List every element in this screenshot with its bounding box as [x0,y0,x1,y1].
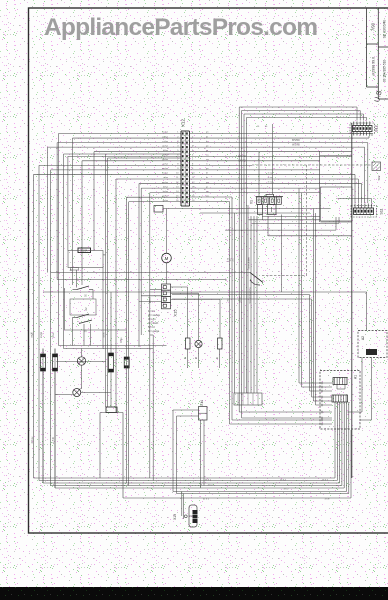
svg-text:26 6 2: 26 6 2 [205,479,212,481]
svg-text:sw: sw [228,298,230,301]
svg-text:sw: sw [206,159,209,161]
svg-text:gn/sw: gn/sw [150,297,152,303]
svg-text:bl/ge: bl/ge [121,337,123,343]
svg-text:4 6 2: 4 6 2 [284,488,290,490]
svg-text:br/sw: br/sw [163,190,169,193]
svg-text:S11: S11 [380,208,384,214]
svg-text:gr: gr [206,185,208,188]
svg-text:bl/sw: bl/sw [163,150,168,152]
svg-text:1,5 bl: 1,5 bl [53,437,55,443]
svg-text:br: br [70,269,73,271]
svg-text:3 = gn: 3 = gn [148,317,156,321]
svg-text:X19: X19 [173,514,177,520]
svg-text:26 6 2: 26 6 2 [280,479,287,481]
svg-text:gr/sw: gr/sw [163,199,169,202]
svg-text:rt sw: rt sw [268,181,273,184]
svg-text:gr/sw: gr/sw [163,163,169,166]
svg-text:sw/sw: sw/sw [162,173,168,175]
svg-text:2,5 sw: 2,5 sw [32,436,34,443]
svg-text:· — · ˙: · — · ˙ [300,556,310,560]
svg-text:br: br [206,176,208,179]
svg-text:41 6 2: 41 6 2 [203,498,210,500]
svg-text:AppliancePartsPros.com: AppliancePartsPros.com [44,14,318,41]
svg-text:4 6 2: 4 6 2 [325,498,331,500]
svg-text:ge/sw: ge/sw [162,159,168,161]
svg-text:WS RD: WS RD [238,156,246,158]
svg-text:ws/sw: ws/sw [162,132,168,134]
svg-text:X14: X14 [200,400,204,406]
svg-text:X2: X2 [84,307,88,311]
svg-text:rt/sw: rt/sw [163,140,168,143]
svg-text:br: br [195,357,198,359]
svg-text:03 184/185-510: 03 184/185-510 [383,60,387,83]
svg-text:br: br [216,357,219,359]
svg-text:rt/ws: rt/ws [52,332,55,338]
svg-text:7/90: 7/90 [371,22,376,31]
svg-text:S12: S12 [375,125,379,131]
svg-text:sw/gn: sw/gn [41,331,43,338]
svg-text:br: br [184,357,187,359]
svg-text:A2: A2 [361,336,365,340]
svg-text:sw: sw [206,195,209,197]
svg-text:ge/sw: ge/sw [162,195,168,197]
svg-text:bl/sw: bl/sw [163,186,168,188]
svg-text:M: M [165,256,169,261]
svg-text:ws/gn: ws/gn [240,296,242,303]
svg-text:26 6 2: 26 6 2 [322,479,329,481]
svg-text:ws/sw: ws/sw [162,168,168,170]
svg-text:rt sw: rt sw [268,176,273,179]
svg-text:4 6 2: 4 6 2 [208,484,214,486]
svg-text:X1: X1 [250,200,254,204]
svg-text:br: br [206,140,208,143]
svg-text:gn/sw: gn/sw [162,145,168,147]
svg-text:X15: X15 [173,309,178,317]
svg-text:ws/bl: ws/bl [32,332,34,338]
svg-text:WS RD: WS RD [292,140,300,142]
svg-text:rt sw: rt sw [268,172,273,175]
svg-text:X12: X12 [181,119,186,128]
svg-text:rt/sw: rt/sw [163,176,168,179]
svg-text:br/sw: br/sw [163,153,169,156]
svg-text:A1: A1 [354,375,358,379]
svg-text:S02: S02 [377,175,381,180]
svg-text:WS RD: WS RD [238,161,246,163]
svg-text:1 = br: 1 = br [148,309,155,313]
svg-text:SE 33/00/4b: SE 33/00/4b [383,20,387,39]
svg-text:gn/sw: gn/sw [162,182,168,184]
svg-text:sw/sw: sw/sw [162,136,168,138]
svg-text:V2998 99.0: V2998 99.0 [372,57,376,75]
svg-text:WS RD: WS RD [292,145,300,147]
svg-text:ws/rt: ws/rt [103,332,106,337]
svg-text:gr: gr [206,149,208,152]
svg-text:5 = bl: 5 = bl [148,325,155,329]
svg-text:F1 8A: F1 8A [81,250,88,253]
